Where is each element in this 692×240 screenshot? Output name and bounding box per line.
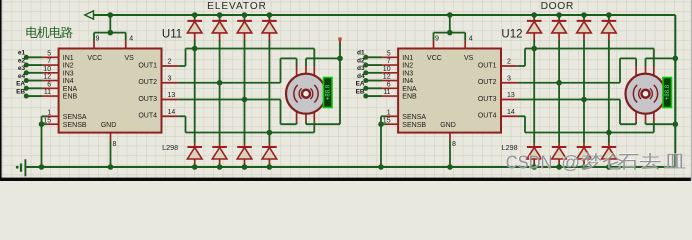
- diode (top freewheel) anode-up: [558, 15, 560, 21]
- svg-text:e4: e4: [18, 73, 26, 80]
- svg-text:U11: U11: [162, 29, 182, 41]
- wire VCC VS tie: [434, 32, 466, 34]
- junction on top rail: [108, 12, 114, 18]
- node e3: [24, 70, 29, 75]
- junction on bottom rail: [267, 164, 273, 170]
- U11 pin 7 IN2: [26, 64, 42, 66]
- U11 pin 15 SENSB: [42, 123, 48, 125]
- junction on bottom rail: [531, 164, 537, 170]
- diode (top freewheel) anode-up: [533, 15, 535, 21]
- wire OUT1 to motor: [518, 65, 525, 67]
- node EA: [24, 86, 29, 91]
- U12 pin 7 IN2: [366, 64, 382, 66]
- svg-text:14: 14: [507, 109, 515, 116]
- svg-text:10: 10: [383, 66, 391, 73]
- junction centre tap: [673, 56, 679, 62]
- svg-text:L298: L298: [162, 143, 178, 152]
- svg-text:14: 14: [168, 109, 176, 116]
- node d1: [363, 55, 368, 60]
- svg-text:VS: VS: [464, 55, 474, 62]
- junction on bottom rail: [581, 164, 587, 170]
- svg-text:12: 12: [43, 74, 51, 81]
- wire bottom ground rail: [25, 166, 675, 168]
- svg-text:CSDN: CSDN: [506, 152, 553, 173]
- U12 pin 10 IN3: [366, 72, 382, 74]
- motor rpm readout box: [324, 78, 333, 108]
- diode (top freewheel) anode-up: [583, 15, 585, 21]
- svg-text:e3: e3: [18, 65, 26, 72]
- wire diode column: [558, 40, 560, 143]
- wire diode column: [268, 40, 270, 143]
- svg-text:8: 8: [113, 141, 117, 148]
- wire diode column: [608, 40, 610, 143]
- U11 pin 14 OUT4: [162, 115, 179, 117]
- ground symbol: [24, 159, 26, 176]
- junction centre tap: [337, 56, 343, 62]
- svg-text:+88.8: +88.8: [665, 84, 671, 100]
- junction on bottom rail: [192, 164, 198, 170]
- svg-text:d3: d3: [357, 65, 365, 72]
- svg-text:2: 2: [507, 59, 511, 66]
- U12 pin 11 ENB: [366, 95, 382, 97]
- svg-text:DOOR: DOOR: [541, 1, 574, 12]
- wire VCC VS tie: [94, 32, 126, 34]
- junction VCC/VS: [447, 30, 453, 36]
- svg-text:ENB: ENB: [402, 94, 417, 101]
- svg-text:GND: GND: [101, 122, 117, 129]
- svg-text:7: 7: [387, 58, 391, 65]
- motor pin stubs: [296, 66, 298, 76]
- diode (bottom freewheel) anode-up: [194, 143, 196, 147]
- svg-text:3: 3: [507, 75, 511, 82]
- svg-text:VCC: VCC: [427, 55, 442, 62]
- wire diode column: [583, 40, 585, 143]
- junction on bottom rail: [556, 164, 562, 170]
- svg-text:IN1: IN1: [63, 55, 74, 62]
- junction on bottom rail: [108, 164, 114, 170]
- svg-text:OUT3: OUT3: [478, 96, 497, 103]
- junction diode column to OUT: [267, 130, 273, 136]
- wire OUT3 to motor: [518, 99, 620, 101]
- svg-text:13: 13: [168, 92, 176, 99]
- svg-text:SENSB: SENSB: [402, 122, 426, 129]
- svg-text:ELEVATOR: ELEVATOR: [207, 1, 267, 12]
- diode (bottom freewheel) anode-up: [244, 143, 246, 147]
- U12 pin 13 OUT3: [501, 99, 518, 101]
- node EA: [363, 86, 368, 91]
- U11 pin 4 VS: [125, 33, 127, 41]
- svg-text:5: 5: [387, 50, 391, 57]
- junction diode column to OUT: [556, 80, 562, 86]
- svg-text:OUT4: OUT4: [478, 113, 497, 120]
- svg-text:VS: VS: [125, 55, 135, 62]
- svg-text:EA: EA: [356, 81, 365, 88]
- U11 pin 9 VCC: [93, 33, 95, 41]
- svg-text:d1: d1: [357, 50, 365, 57]
- svg-text:IN3: IN3: [63, 70, 74, 77]
- diode (top freewheel) anode-up: [608, 15, 610, 21]
- svg-text:9: 9: [435, 36, 439, 43]
- junction on bottom rail: [39, 164, 45, 170]
- svg-text:6: 6: [47, 81, 51, 88]
- junction on top rail: [447, 12, 453, 18]
- wire top power rail: [94, 14, 676, 16]
- U12 pin 4 VS: [464, 33, 466, 41]
- svg-text:11: 11: [383, 89, 390, 96]
- junction on top rail: [192, 12, 198, 18]
- dangling centre-tap terminal: [339, 43, 341, 59]
- junction diode column to OUT: [242, 97, 248, 103]
- node e2: [24, 63, 29, 68]
- diode (top freewheel) anode-up: [244, 15, 246, 21]
- diode (bottom freewheel) anode-up: [558, 143, 560, 147]
- screenshot bottom border: [0, 178, 692, 181]
- junction on top rail: [267, 12, 273, 18]
- wire OUT1 to motor: [178, 65, 185, 67]
- svg-text:EB: EB: [16, 88, 25, 95]
- svg-text:2: 2: [168, 59, 172, 66]
- svg-text:EB: EB: [356, 88, 365, 95]
- wire diode column: [194, 40, 196, 143]
- U11 pin 1 SENSA: [42, 115, 48, 117]
- diode (top freewheel) anode-up: [219, 15, 221, 21]
- svg-text:3: 3: [168, 75, 172, 82]
- svg-text:@: @: [561, 152, 580, 173]
- U12 pin 3 OUT2: [501, 82, 518, 84]
- wire OUT2 to motor: [178, 82, 280, 84]
- svg-text:8: 8: [452, 141, 456, 148]
- junction on top rail: [217, 12, 223, 18]
- U11 pin 10 IN3: [26, 72, 42, 74]
- motor pin stubs: [635, 66, 637, 76]
- junction SENS: [378, 121, 384, 127]
- diode (top freewheel) anode-up: [194, 15, 196, 21]
- U12 pin 14 OUT4: [501, 115, 518, 117]
- wire OUT2 to motor: [518, 82, 620, 84]
- svg-text:e1: e1: [18, 50, 26, 57]
- svg-text:SENSB: SENSB: [63, 122, 87, 129]
- svg-text:10: 10: [43, 66, 51, 73]
- wire motor bottom-left pin: [296, 121, 298, 124]
- wire SENS to ground rail: [380, 116, 382, 167]
- svg-text:ENB: ENB: [63, 94, 78, 101]
- junction diode column to OUT: [217, 80, 223, 86]
- svg-text:ENA: ENA: [402, 86, 417, 93]
- wire motor top-left pin: [635, 58, 637, 66]
- junction diode column to OUT: [606, 130, 612, 136]
- svg-text:VCC: VCC: [87, 55, 102, 62]
- svg-text:+88.8: +88.8: [326, 84, 332, 100]
- svg-text:U12: U12: [501, 29, 522, 41]
- U11 pin 12 IN4: [26, 80, 42, 82]
- svg-text:d2: d2: [357, 57, 365, 64]
- U12 pin 5 IN1: [366, 56, 382, 58]
- svg-text:5: 5: [47, 50, 51, 57]
- U12 pin 6 ENA: [366, 87, 382, 89]
- stepper motor body: [626, 74, 666, 114]
- junction on top rail: [606, 12, 612, 18]
- title 电机电路: [26, 26, 72, 38]
- node d3: [363, 70, 368, 75]
- junction centre tap bottom: [673, 121, 679, 127]
- U11 pin 3 OUT2: [162, 82, 179, 84]
- svg-text:IN1: IN1: [402, 55, 413, 62]
- svg-text:13: 13: [507, 92, 515, 99]
- wire motor bottom-right pin: [653, 121, 655, 132]
- svg-text:1: 1: [47, 109, 51, 116]
- wire OUT4 to motor: [518, 115, 525, 117]
- stepper motor body: [286, 74, 326, 114]
- junction VCC/VS: [108, 30, 114, 36]
- junction on bottom rail: [242, 164, 248, 170]
- wire motor centre taps: [645, 58, 647, 66]
- svg-text:ENA: ENA: [63, 86, 78, 93]
- motor rpm readout box: [663, 78, 672, 108]
- wire SENS to ground rail: [41, 116, 43, 167]
- node e4: [24, 78, 29, 83]
- svg-text:4: 4: [469, 36, 473, 43]
- U11 pin 8 GND: [110, 133, 112, 141]
- svg-text:4: 4: [129, 36, 133, 43]
- U12 pin 12 IN4: [366, 80, 382, 82]
- svg-text:15: 15: [383, 118, 391, 125]
- junction SENS: [39, 121, 45, 127]
- junction diode column to OUT: [192, 46, 198, 52]
- screenshot left border: [0, 0, 2, 181]
- svg-text:IN4: IN4: [63, 78, 74, 85]
- U12 pin 1 SENSA: [381, 115, 387, 117]
- svg-text:IN2: IN2: [63, 63, 74, 70]
- svg-text:GND: GND: [440, 122, 456, 129]
- svg-text:d4: d4: [357, 73, 365, 80]
- junction on top rail: [531, 12, 537, 18]
- svg-text:OUT3: OUT3: [138, 96, 157, 103]
- junction diode column to OUT: [581, 97, 587, 103]
- diode (bottom freewheel) anode-up: [608, 143, 610, 147]
- svg-text:6: 6: [387, 81, 391, 88]
- node d4: [363, 78, 368, 83]
- junction on top rail: [581, 12, 587, 18]
- wire motor top-left pin: [296, 58, 298, 66]
- junction on bottom rail: [606, 164, 612, 170]
- diode (bottom freewheel) anode-up: [268, 143, 270, 147]
- U11 pin 5 IN1: [26, 56, 42, 58]
- svg-text:SENSA: SENSA: [402, 114, 426, 121]
- wire diode column: [244, 40, 246, 143]
- U12 pin 8 GND: [449, 133, 451, 141]
- wire motor bottom-left pin: [635, 121, 637, 124]
- diode (bottom freewheel) anode-up: [533, 143, 535, 147]
- node e1: [24, 55, 29, 60]
- wire right rail: [674, 15, 676, 167]
- U12 pin 2 OUT1: [501, 65, 518, 67]
- wire diode column: [533, 40, 535, 143]
- L298 driver U11 body: [59, 49, 162, 133]
- svg-text:SENSA: SENSA: [63, 114, 87, 121]
- junction on bottom rail: [447, 164, 453, 170]
- svg-text:IN2: IN2: [402, 63, 413, 70]
- svg-text:IN3: IN3: [402, 70, 413, 77]
- svg-text:11: 11: [44, 89, 51, 96]
- wire OUT4 to motor: [178, 115, 185, 117]
- power terminal arrow: [85, 11, 94, 19]
- svg-text:EA: EA: [16, 81, 25, 88]
- diode (top freewheel) anode-up: [268, 15, 270, 21]
- svg-text:OUT4: OUT4: [138, 113, 157, 120]
- junction on bottom rail: [378, 164, 384, 170]
- junction on bottom rail: [217, 164, 223, 170]
- node d2: [363, 63, 368, 68]
- U11 pin 6 ENA: [26, 87, 42, 89]
- wire motor top-right pin: [653, 49, 655, 67]
- wire diode column: [219, 40, 221, 143]
- U11 pin 11 ENB: [26, 95, 42, 97]
- wire motor centre taps: [305, 58, 307, 66]
- svg-text:OUT1: OUT1: [138, 62, 157, 69]
- svg-text:OUT2: OUT2: [138, 79, 157, 86]
- svg-text:1: 1: [387, 109, 391, 116]
- svg-text:12: 12: [383, 74, 391, 81]
- svg-text:OUT2: OUT2: [478, 79, 497, 86]
- svg-text:e2: e2: [18, 57, 26, 64]
- wire motor top-right pin: [313, 49, 315, 67]
- junction on top rail: [556, 12, 562, 18]
- junction on top rail: [242, 12, 248, 18]
- node EB: [363, 94, 368, 99]
- U12 pin 15 SENSB: [381, 123, 387, 125]
- diode (bottom freewheel) anode-up: [219, 143, 221, 147]
- node EB: [24, 94, 29, 99]
- svg-text:7: 7: [47, 58, 51, 65]
- diode (bottom freewheel) anode-up: [583, 143, 585, 147]
- U11 pin 13 OUT3: [162, 99, 179, 101]
- L298 driver U12 body: [398, 49, 501, 133]
- svg-text:15: 15: [43, 118, 51, 125]
- wire OUT3 to motor: [178, 99, 280, 101]
- svg-text:IN4: IN4: [402, 78, 413, 85]
- svg-text:9: 9: [96, 36, 100, 43]
- svg-text:OUT1: OUT1: [478, 62, 497, 69]
- junction diode column to OUT: [531, 46, 537, 52]
- U12 pin 9 VCC: [433, 33, 435, 41]
- U11 pin 2 OUT1: [162, 65, 179, 67]
- wire motor bottom-right pin: [313, 121, 315, 132]
